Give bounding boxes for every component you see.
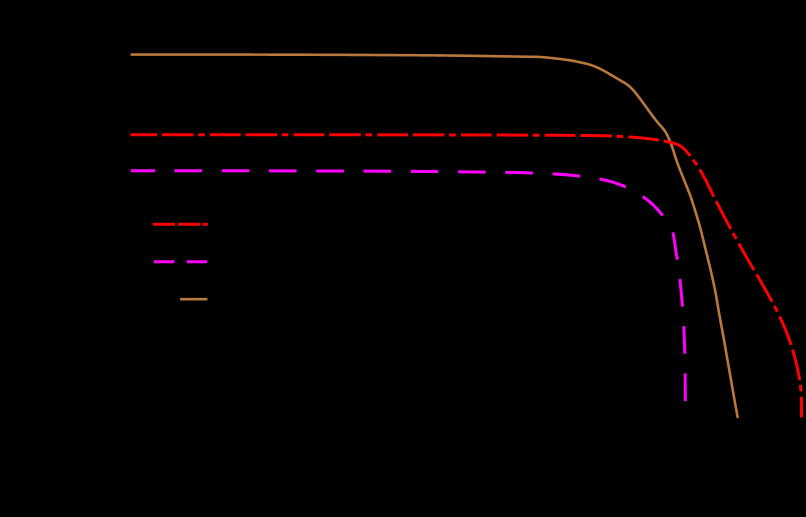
magenta dashed curve — [131, 171, 686, 401]
brown solid curve — [131, 55, 738, 418]
red dash-dash-dot curve — [131, 135, 802, 418]
legend brown solid sample — [180, 298, 207, 301]
legend red dash-dot sample — [153, 223, 208, 226]
legend magenta dashed sample — [154, 260, 207, 263]
